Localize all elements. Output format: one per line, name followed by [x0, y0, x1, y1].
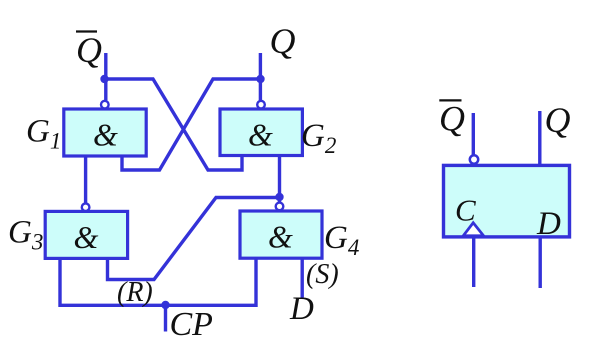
- node G4-output junction dot: [275, 193, 283, 201]
- wire Q vertical: [259, 53, 262, 100]
- gate G1: [64, 109, 146, 156]
- node CP junction dot: [161, 301, 169, 309]
- wire CP stub: [164, 305, 167, 331]
- gate G2: [220, 109, 302, 156]
- svg-text:&: &: [93, 117, 118, 153]
- wire Qbar vertical: [104, 53, 107, 100]
- overline of Qbar left-circuit: [76, 30, 97, 32]
- svg-text:&: &: [248, 117, 273, 153]
- wire cross-couple Q node to G1 input: [122, 79, 261, 170]
- wire flipflop Qbar output: [472, 113, 475, 155]
- bubble flipflop Qbar: [470, 155, 478, 163]
- wire G4 output node to G3 input: [108, 198, 280, 280]
- wire flipflop Q output: [538, 111, 541, 165]
- bubble G1 output: [101, 101, 109, 109]
- svg-text:Q: Q: [545, 100, 571, 140]
- svg-text:Q: Q: [270, 21, 296, 61]
- svg-text:CP: CP: [170, 306, 213, 343]
- svg-text:C: C: [455, 193, 476, 228]
- wire G2 input to G4 output node: [278, 156, 281, 202]
- wire flipflop D input: [539, 237, 542, 289]
- svg-text:(R): (R): [117, 277, 153, 308]
- gate G4: [240, 211, 322, 258]
- svg-text:Q: Q: [439, 99, 465, 139]
- wire CP bus from G3 input to G4 input: [60, 258, 256, 305]
- bubble G3 output: [82, 203, 90, 211]
- svg-text:Q: Q: [76, 30, 102, 70]
- bubble G2 output: [257, 101, 265, 109]
- overline of Qbar flipflop: [439, 99, 461, 101]
- bubble G4 output: [276, 203, 284, 211]
- svg-text:(S): (S): [306, 259, 339, 290]
- wire cross-couple Qbar node to G2 input: [105, 79, 243, 170]
- flipflop body: [444, 165, 570, 237]
- svg-text:&: &: [268, 219, 293, 255]
- svg-text:&: &: [74, 219, 99, 255]
- node Qbar junction dot: [100, 75, 108, 83]
- gate G3: [45, 211, 127, 258]
- dynamic-input triangle on C: [463, 223, 483, 236]
- wire G3 output to G1 input: [84, 156, 87, 203]
- svg-text:D: D: [536, 206, 561, 242]
- wire D input: [301, 258, 304, 298]
- wire flipflop C input: [472, 237, 475, 288]
- node Q junction dot: [256, 75, 264, 83]
- svg-text:D: D: [289, 291, 314, 327]
